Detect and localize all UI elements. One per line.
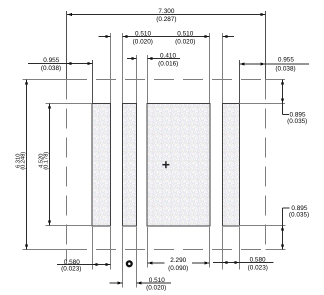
svg-text:(0.038): (0.038) (275, 65, 295, 72)
svg-text:(0.090): (0.090) (168, 265, 188, 272)
svg-text:0.955: 0.955 (278, 57, 294, 64)
svg-text:(0.020): (0.020) (175, 39, 195, 46)
dim 0.510 bottom (pad2 width) (110, 277, 172, 291)
dim 6.310 left (rotated) (15, 80, 28, 250)
svg-text:0.510: 0.510 (149, 277, 165, 284)
dim 0.580 bottom left (57, 259, 111, 273)
svg-text:0.955: 0.955 (43, 57, 59, 64)
pad 3 (central, 2.290) (147, 104, 210, 227)
dim 0.955 left (28, 57, 93, 72)
dim 0.895 top right (281, 80, 307, 126)
svg-text:0.510: 0.510 (135, 30, 151, 37)
extension lines: left group (6.310 / 4.520) (23, 80, 93, 262)
svg-text:(0.023): (0.023) (248, 265, 268, 272)
pin1 indicator dot (127, 261, 132, 266)
svg-text:0.410: 0.410 (160, 52, 176, 59)
svg-text:(0.287): (0.287) (156, 16, 176, 23)
extension lines: top group (111, 33, 223, 103)
package outline (dashed) (67, 80, 266, 250)
dim 0.410 gap (127, 52, 180, 67)
pad 4 (right, 0.580) (222, 104, 239, 227)
pad 1 (left, 0.580) (92, 104, 111, 227)
svg-text:(0.035): (0.035) (287, 118, 307, 125)
dim 2.290 bottom center (148, 257, 210, 272)
dim 7.300 (0.287) top (67, 8, 266, 23)
svg-text:0.580: 0.580 (250, 256, 266, 263)
svg-text:(0.178): (0.178) (43, 152, 50, 170)
dim 0.510 gaps (two) (98, 30, 234, 45)
dim 0.955 right (240, 57, 310, 73)
extension lines: bottom group (93, 227, 240, 288)
svg-text:(0.035): (0.035) (289, 212, 309, 219)
svg-text:(0.248): (0.248) (19, 152, 26, 170)
dim 4.520 left (rotated) (39, 104, 52, 226)
dim 0.580 bottom right (213, 256, 274, 271)
svg-text:(0.020): (0.020) (146, 284, 166, 291)
pad 2 (0.510) (122, 104, 136, 227)
extension lines: right group (0.895 top and bottom) (240, 80, 286, 250)
svg-text:(0.023): (0.023) (61, 266, 81, 273)
svg-text:(0.016): (0.016) (158, 60, 178, 67)
svg-text:0.510: 0.510 (177, 30, 193, 37)
extension lines: package corners (67, 11, 266, 103)
svg-text:(0.020): (0.020) (133, 39, 153, 46)
svg-text:(0.038): (0.038) (41, 65, 61, 72)
center mark + (162, 161, 169, 168)
dim 0.895 bottom right (281, 205, 309, 250)
svg-text:2.290: 2.290 (170, 257, 186, 264)
svg-text:7.300: 7.300 (158, 8, 174, 15)
